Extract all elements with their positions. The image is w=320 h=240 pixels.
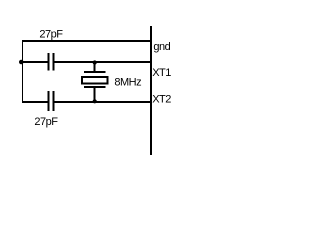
capacitor C1 27pF top: left plate: [48, 53, 50, 71]
svg-text:gnd: gnd: [153, 41, 170, 53]
svg-text:XT2: XT2: [152, 94, 171, 106]
wire bottom horizontal left segment (left rail to C2): [22, 101, 49, 103]
wire mid horizontal right segment (C1 to XT1): [53, 61, 151, 63]
junction dot crystal bottom (XT2 net): [93, 99, 97, 103]
svg-text:27pF: 27pF: [39, 29, 63, 41]
crystal Y1 bottom lead: [94, 87, 96, 102]
wire left vertical: [22, 40, 24, 103]
capacitor C2 bottom: right plate: [53, 91, 55, 111]
wire mid horizontal left segment (node to C1): [21, 61, 49, 63]
crystal Y1 bottom plate: [84, 86, 106, 88]
svg-text:8MHz: 8MHz: [114, 77, 141, 89]
svg-text:XT1: XT1: [152, 67, 171, 79]
junction dot node left (XT1 wire to left rail): [19, 60, 24, 65]
capacitor C2 27pF bottom: left plate: [48, 91, 50, 111]
junction dot crystal top (XT1 net): [93, 60, 97, 64]
crystal Y1 body rectangle: [82, 77, 108, 84]
wire right vertical chip edge: [150, 26, 152, 155]
capacitor C1 top: right plate: [53, 53, 55, 71]
crystal Y1 top plate: [84, 71, 106, 73]
wire top horizontal gnd rail: [22, 40, 152, 42]
svg-text:27pF: 27pF: [34, 116, 58, 128]
wire bottom horizontal right segment (C2 to XT2): [53, 101, 151, 103]
crystal Y1 top lead: [94, 62, 96, 72]
